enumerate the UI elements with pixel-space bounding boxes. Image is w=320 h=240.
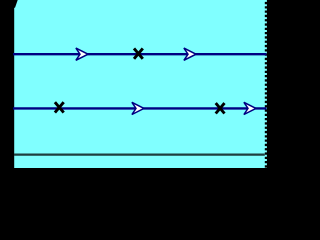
cross X1 (top line) (134, 48, 143, 58)
arrowhead A2 (top line) (184, 48, 196, 60)
cross X3 (bottom line) (216, 103, 225, 113)
cross X2 (bottom line) (55, 102, 64, 112)
bottom axis line (14, 154, 265, 156)
arrowhead A3 (bottom line) (132, 102, 144, 114)
dashed right boundary (cyan teeth into black) (265, 0, 267, 168)
wire: top streamline (13, 53, 267, 55)
axis arrow (top-left, black) (14, 0, 18, 8)
field region (cyan) (14, 0, 265, 168)
arrowhead A1 (top line) (76, 48, 88, 60)
wire: bottom streamline (13, 107, 267, 109)
arrowhead A4 (bottom line) (244, 102, 256, 114)
